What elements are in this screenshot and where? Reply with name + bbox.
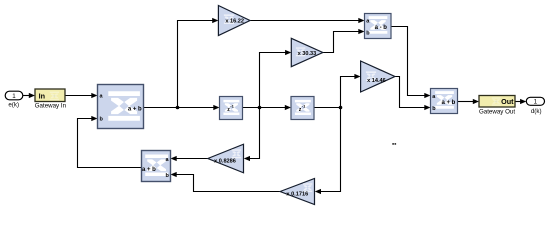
svg-text:Out: Out [501,97,514,106]
gain G4 x0.8286 (mirrored) [208,144,244,173]
svg-text:1: 1 [12,93,16,100]
svg-text:e(k): e(k) [8,102,19,109]
svg-text:x 30.33: x 30.33 [298,51,317,57]
svg-text:x 0.8286: x 0.8286 [214,158,236,164]
svg-text:x 14.46: x 14.46 [367,78,386,84]
gain G3 x14.46 [361,61,395,92]
delay Z2 [291,97,314,120]
wire: feedback adder U3 out to U1 port b [78,119,142,168]
node J2 [258,106,262,110]
svg-text:a + b: a + b [128,107,142,113]
node J1 [176,106,180,110]
gain G2 x30.33 [291,38,323,66]
svg-text:Gateway Out: Gateway Out [479,108,515,115]
svg-text:a + b: a + b [441,100,455,106]
annotation ** [392,143,394,145]
wire: branch down to gain G5 [321,108,341,192]
svg-text:d(k): d(k) [531,108,542,115]
gain G1 x16.22 [218,6,250,36]
wire: U1 out to delay z1, junction node [144,107,215,109]
gateway Out [479,96,515,108]
inport 1 e(k) [5,91,23,100]
delay Z1 [220,97,243,120]
wire: Gateway Out to outport [515,101,521,103]
gateway In [35,89,65,102]
adder U1 [98,85,144,129]
svg-text:Gateway In: Gateway In [35,103,67,110]
wire: G3 out to adder U2 port b [395,77,425,108]
wire: G5 out to U3 port b [177,175,281,192]
subtractor U4 a-b [365,14,392,39]
wire: branch up to gain G2 [260,53,287,108]
adder U2 [431,89,458,114]
svg-text:a + b: a + b [142,167,156,173]
svg-text:x 0.1716: x 0.1716 [286,192,308,198]
node J3 [339,106,343,110]
svg-text:In: In [39,91,45,100]
outport 1 d(k) [526,97,544,105]
svg-text:x 16.22: x 16.22 [225,18,244,24]
wire: G4 out to U3 port a [177,158,208,160]
feedback adder U3 (mirrored) [142,151,171,182]
wire: subtractor out to adder U2 port a [391,27,425,96]
svg-text:a - b: a - b [375,25,388,31]
wire: branch down to gain G4 [250,108,260,159]
gain G5 x0.1716 (mirrored) [280,179,314,205]
wire: z1 out to z2, junction node [243,107,286,109]
svg-text:1: 1 [534,99,538,106]
wire: G1 out to subtractor port a [250,20,359,22]
wire: inport to Gateway In [22,95,30,97]
wire: U2 out to Gateway Out [458,101,474,103]
wire: branch up to gain G1 [178,21,214,108]
wire: branch up to gain G3 [341,77,356,108]
wire: z2 out to junction node [314,107,341,109]
wire: G2 out to subtractor port b [323,32,359,53]
wire: Gateway In to adder U1 port a [65,95,92,97]
